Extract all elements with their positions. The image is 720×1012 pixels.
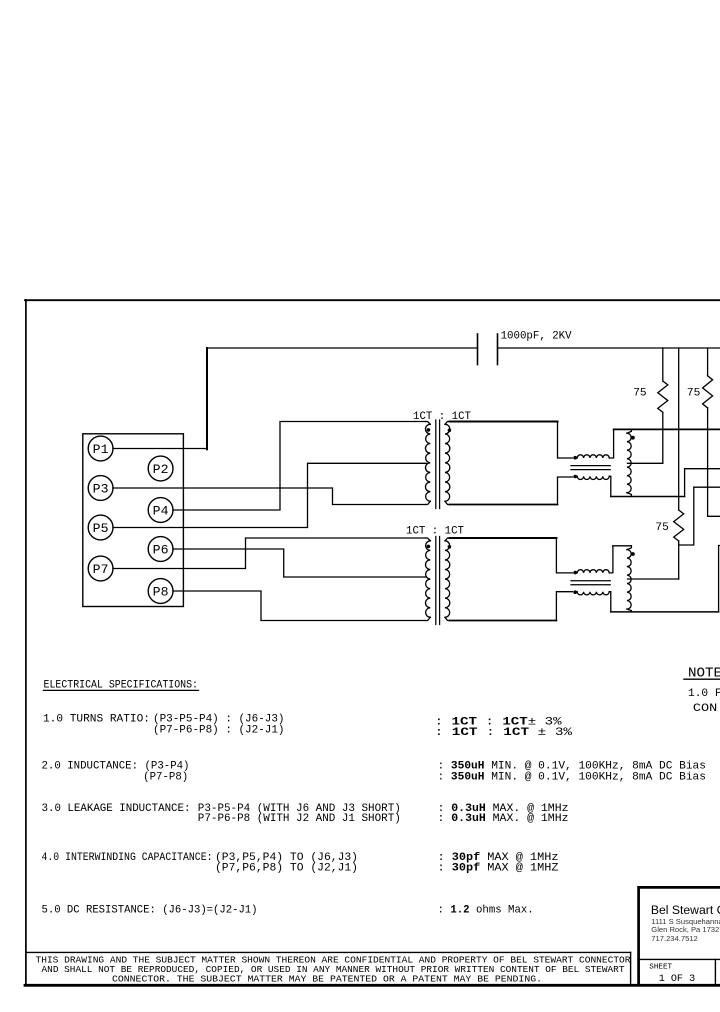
svg-text:P6: P6 bbox=[153, 543, 169, 558]
svg-text:: 350uH MIN. @ 0.1V, 100KHz, 8: : 350uH MIN. @ 0.1V, 100KHz, 8mA DC Bias bbox=[438, 771, 707, 783]
svg-text:CONNECTOR. THE SUBJECT MATTER: CONNECTOR. THE SUBJECT MATTER MAY BE PAT… bbox=[112, 973, 542, 984]
svg-text:SHEET: SHEET bbox=[649, 964, 672, 972]
svg-text:5.0 DC RESISTANCE: (J6-J3)=(J2: 5.0 DC RESISTANCE: (J6-J3)=(J2-J1) bbox=[42, 905, 258, 917]
svg-text:P3: P3 bbox=[93, 482, 109, 497]
svg-text:75: 75 bbox=[633, 388, 646, 400]
svg-text:1000pF, 2KV: 1000pF, 2KV bbox=[501, 331, 572, 343]
svg-text:ELECTRICAL SPECIFICATIONS:: ELECTRICAL SPECIFICATIONS: bbox=[44, 679, 199, 691]
svg-text:P7-P6-P8 (WITH J2 AND J1 SHORT: P7-P6-P8 (WITH J2 AND J1 SHORT) bbox=[198, 813, 401, 825]
svg-text:(P7,P6,P8) TO (J2,J1): (P7,P6,P8) TO (J2,J1) bbox=[215, 862, 358, 874]
svg-text:P7: P7 bbox=[93, 562, 109, 577]
svg-text:P1: P1 bbox=[93, 442, 109, 457]
svg-text:P2: P2 bbox=[153, 462, 169, 477]
svg-text:: 30pf MAX @ 1MHZ: : 30pf MAX @ 1MHZ bbox=[438, 862, 560, 874]
svg-text:3.0 LEAKAGE INDUCTANCE:: 3.0 LEAKAGE INDUCTANCE: bbox=[42, 803, 191, 815]
svg-text:75: 75 bbox=[687, 388, 700, 400]
svg-text:CON: CON bbox=[693, 703, 717, 715]
svg-text:: 1CT : 1CT ± 3%: : 1CT : 1CT ± 3% bbox=[435, 727, 573, 739]
svg-text:P5: P5 bbox=[93, 521, 109, 536]
svg-text:(P7-P8): (P7-P8) bbox=[143, 771, 188, 783]
svg-text:1CT : 1CT: 1CT : 1CT bbox=[406, 526, 464, 538]
svg-text:1.0 TURNS RATIO:: 1.0 TURNS RATIO: bbox=[43, 714, 150, 726]
svg-text:: 0.3uH MAX. @ 1MHz: : 0.3uH MAX. @ 1MHz bbox=[438, 813, 569, 825]
svg-text:(P7-P6-P8) : (J2-J1): (P7-P6-P8) : (J2-J1) bbox=[153, 724, 285, 736]
svg-text:1.0 FOR: 1.0 FOR bbox=[688, 688, 720, 700]
svg-text:P4: P4 bbox=[153, 504, 169, 519]
svg-text:: 1.2 ohms Max.: : 1.2 ohms Max. bbox=[438, 905, 534, 917]
svg-text:717.234.7512: 717.234.7512 bbox=[651, 934, 697, 943]
svg-text:P8: P8 bbox=[153, 585, 169, 600]
svg-text:Bel Stewart Connector: Bel Stewart Connector bbox=[651, 903, 720, 917]
svg-text:1 OF 3: 1 OF 3 bbox=[659, 973, 696, 985]
svg-text:Glen Rock, Pa 17327: Glen Rock, Pa 17327 bbox=[651, 925, 720, 934]
svg-text:4.0 INTERWINDING CAPACITANCE:: 4.0 INTERWINDING CAPACITANCE: bbox=[42, 852, 213, 864]
svg-text:75: 75 bbox=[655, 522, 668, 534]
